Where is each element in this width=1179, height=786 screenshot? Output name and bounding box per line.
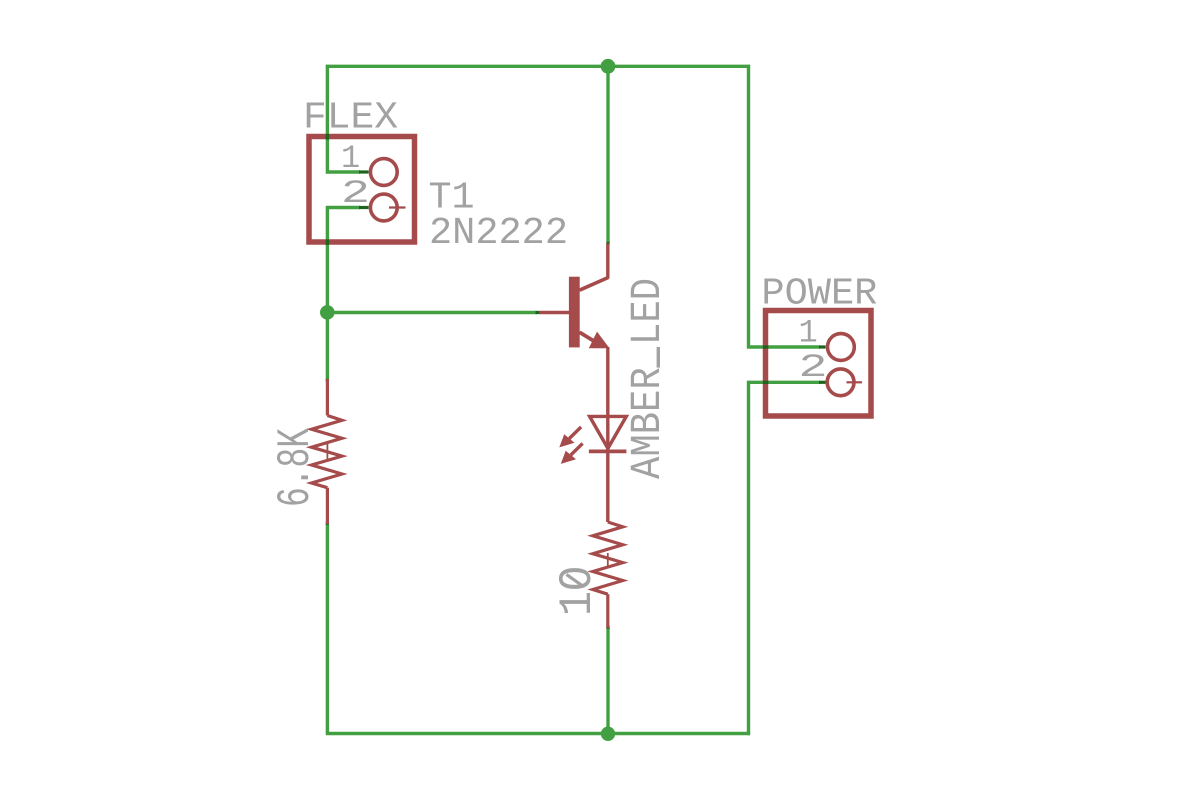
LED light arrow 2 head xyxy=(561,451,576,464)
wire right vertical to POWER pin1 xyxy=(749,65,821,347)
resistor R2 bottom lead xyxy=(606,594,609,628)
wire top net VCC xyxy=(326,65,750,68)
wire left vertical to FLEX pin1 xyxy=(327,65,360,172)
wire POWER pin2 to bottom rail xyxy=(749,382,821,735)
transistor T1 emitter diagonal xyxy=(580,332,594,340)
connector FLEX pin 2 tick xyxy=(389,206,406,208)
pin overlap R1 bottom xyxy=(326,521,329,524)
blend FLEX box bottom edge x wire xyxy=(326,239,329,245)
connector POWER body xyxy=(766,311,872,417)
pin overlap T1 collector xyxy=(606,242,609,245)
resistor R1 zigzag 6.8K xyxy=(312,416,343,488)
svg-text:1: 1 xyxy=(799,315,818,352)
transistor T1 base lead xyxy=(539,311,569,315)
svg-text:AMBER LED: AMBER LED xyxy=(623,278,672,479)
slash of zero in value 10 xyxy=(566,574,582,585)
connector POWER pin 2 circle xyxy=(827,369,854,396)
junction dot node B (base/R1/FLEX2) xyxy=(320,305,335,320)
connector FLEX pin 1 circle xyxy=(370,159,397,186)
wire T1 emitter to LED anode (red pin) xyxy=(606,347,609,522)
underscore of AMBER_LED xyxy=(657,347,660,368)
junction dot bottom (GND/R2) xyxy=(601,727,615,741)
LED light arrow 1 head xyxy=(559,434,574,447)
pin overlap T1 base xyxy=(536,311,540,314)
transistor T1 collector pin vertical xyxy=(606,244,609,279)
pin overlap POWER pin2 xyxy=(819,381,826,384)
connector POWER pin 1 circle xyxy=(828,334,855,361)
pin overlap FLEX pin2 xyxy=(359,206,369,209)
svg-text:6.8K: 6.8K xyxy=(270,427,322,507)
diode LED triangle xyxy=(590,416,627,448)
pin overlap POWER pin1 xyxy=(819,345,826,348)
transistor T1 emitter arrow xyxy=(589,332,610,349)
resistor R2 pin tick xyxy=(607,553,609,567)
svg-text:2: 2 xyxy=(341,175,370,212)
connector FLEX pin 2 circle xyxy=(370,194,397,221)
wire resistor R1 bottom to GND rail xyxy=(326,523,329,734)
resistor R2 zigzag 10 xyxy=(593,522,623,594)
wire base net horizontal xyxy=(327,311,537,314)
wire resistor R2 bottom to GND junction xyxy=(606,627,609,734)
transistor Q T1 base bar xyxy=(569,277,580,348)
resistor R1 top lead xyxy=(326,379,329,416)
transistor T1 collector diagonal xyxy=(580,278,609,291)
blend FLEX box top edge x wire xyxy=(326,134,329,140)
blend POWER box left edge x pin2 wire xyxy=(763,381,768,384)
wire node B down to resistor R1 xyxy=(326,313,329,381)
svg-text:1O: 1O xyxy=(552,566,604,616)
wire FLEX pin2 down-left to node B xyxy=(327,208,360,313)
svg-text:1: 1 xyxy=(341,140,360,177)
pin overlap R1 top xyxy=(326,379,329,382)
wire top junction down to T1 collector xyxy=(606,66,609,243)
wire bottom net GND xyxy=(326,732,750,735)
resistor R1 bottom lead xyxy=(326,488,329,524)
LED light arrow 2 shaft xyxy=(571,443,583,455)
resistor R1 pin tick xyxy=(326,444,328,459)
LED light arrow 1 shaft xyxy=(569,427,581,439)
svg-text:FLEX: FLEX xyxy=(303,97,398,140)
blend POWER box left edge x pin1 wire xyxy=(763,345,768,348)
connector POWER pin 2 tick xyxy=(847,381,863,383)
diode LED cathode bar xyxy=(589,449,627,453)
junction dot top (node VCC/collector) xyxy=(601,59,616,74)
pin overlap R2 bottom xyxy=(606,625,609,628)
pin overlap FLEX pin1 xyxy=(359,170,369,173)
svg-text:2N2222: 2N2222 xyxy=(429,212,568,255)
connector FLEX body xyxy=(309,137,415,243)
svg-text:2: 2 xyxy=(799,349,828,386)
svg-text:POWER: POWER xyxy=(761,273,877,316)
